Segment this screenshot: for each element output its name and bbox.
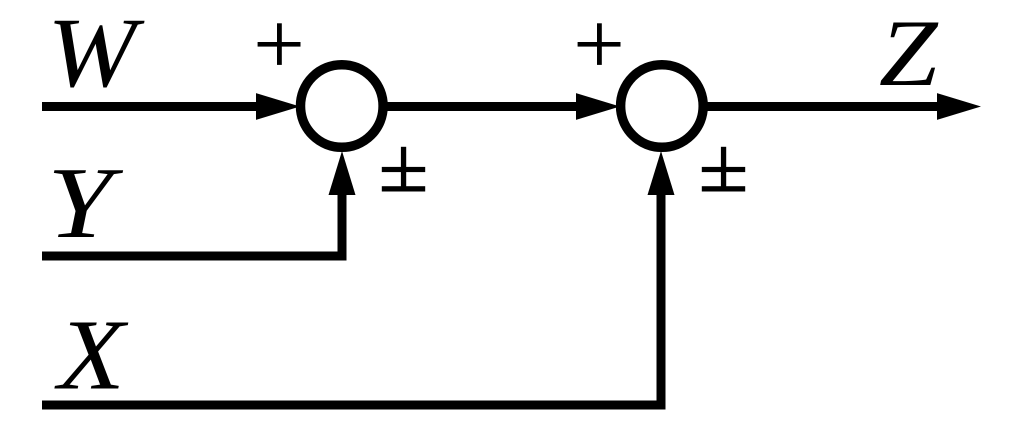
wire Y vertical riser xyxy=(338,193,347,261)
plus-minus sign at S2 xyxy=(702,147,745,192)
arrowhead Z output xyxy=(937,93,981,120)
plus sign at S2 xyxy=(578,23,621,65)
svg-text:X: X xyxy=(54,298,129,410)
arrowhead into summer S2 xyxy=(576,93,620,120)
wire X horizontal xyxy=(42,401,666,410)
svg-text:Y: Y xyxy=(47,147,123,259)
arrowhead into summer S1 xyxy=(256,93,300,120)
wire S1 to S2 xyxy=(384,102,578,111)
summing junction S2 xyxy=(621,65,704,148)
wire Z output xyxy=(705,102,940,111)
plus sign at S1 xyxy=(258,23,301,65)
wire Y horizontal xyxy=(42,252,347,261)
svg-text:W: W xyxy=(47,0,144,108)
summing junction S1 xyxy=(301,65,384,148)
wire X vertical riser xyxy=(657,193,666,410)
arrowhead X into S2 xyxy=(648,151,675,195)
arrowhead Y into S1 xyxy=(329,151,356,195)
plus-minus sign at S1 xyxy=(382,147,425,192)
wire W input xyxy=(42,102,260,111)
svg-text:Z: Z xyxy=(879,1,939,106)
